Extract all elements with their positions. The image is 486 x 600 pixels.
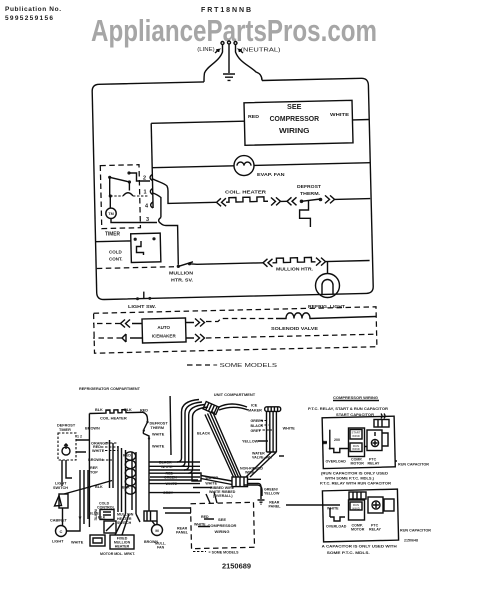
svg-text:BLK: BLK (122, 486, 130, 490)
svg-text:WHITE: WHITE (205, 482, 217, 486)
svg-text:WIRING: WIRING (279, 126, 310, 135)
svg-text:WHITE: WHITE (94, 509, 98, 521)
svg-text:BLK: BLK (98, 516, 106, 520)
svg-text:A CAPACITOR IS ONLY USED WITH: A CAPACITOR IS ONLY USED WITH (322, 545, 397, 549)
svg-text:RELAY: RELAY (369, 528, 381, 532)
svg-text:LIGHT: LIGHT (55, 482, 67, 486)
svg-text:BLACK: BLACK (197, 432, 211, 436)
svg-text:1: 1 (144, 190, 147, 196)
svg-text:UNIT COMPARTMENT: UNIT COMPARTMENT (214, 392, 256, 397)
svg-text:WHITE: WHITE (194, 523, 206, 527)
svg-text:YELLOW: YELLOW (264, 492, 280, 496)
svg-text:MOTOR MDL. MRKT.: MOTOR MDL. MRKT. (100, 552, 135, 556)
svg-text:RUN CAPACITOR: RUN CAPACITOR (400, 529, 431, 533)
svg-text:ICE: ICE (251, 404, 258, 408)
svg-text:HTR. SV.: HTR. SV. (171, 278, 193, 283)
svg-text:SOLENOID VALVE: SOLENOID VALVE (271, 326, 318, 331)
svg-text:EVAP. FAN: EVAP. FAN (257, 172, 285, 177)
svg-text:(RUN CAPACITOR IS ONLY USED: (RUN CAPACITOR IS ONLY USED (321, 472, 388, 476)
svg-text:PANEL: PANEL (176, 531, 189, 535)
svg-text:Publication No.: Publication No. (5, 6, 61, 13)
svg-text:COMPRESSOR: COMPRESSOR (270, 114, 320, 123)
svg-text:(NEUTRAL): (NEUTRAL) (241, 48, 281, 54)
svg-text:LIGHT SW.: LIGHT SW. (128, 304, 156, 309)
svg-text:SWITCH: SWITCH (117, 521, 132, 525)
svg-text:(LINE): (LINE) (197, 47, 214, 53)
svg-text:BLACK: BLACK (251, 424, 264, 428)
svg-text:WIRE: WIRE (245, 471, 255, 475)
svg-text:WHITE: WHITE (330, 112, 349, 117)
svg-text:COMPRESSOR WIRING: COMPRESSOR WIRING (333, 395, 378, 400)
svg-text:SEE: SEE (287, 102, 302, 111)
svg-text:YELLOW: YELLOW (242, 440, 259, 444)
svg-text:C: C (60, 529, 63, 534)
svg-text:MOTOR: MOTOR (351, 462, 365, 466)
svg-text:WHITE: WHITE (152, 445, 165, 449)
svg-text:MULLION HTR.: MULLION HTR. (276, 267, 313, 272)
svg-text:WIRING: WIRING (215, 529, 230, 534)
svg-text:DEFROST: DEFROST (297, 184, 321, 189)
svg-text:(OVERALL): (OVERALL) (213, 494, 233, 498)
svg-text:FAN: FAN (157, 546, 165, 550)
svg-text:CONT.: CONT. (109, 257, 123, 262)
svg-text:RELAY: RELAY (368, 462, 380, 466)
svg-text:OVERLOAD: OVERLOAD (326, 525, 347, 529)
svg-text:P.T.C. RELAY WITH RUN CAPACITO: P.T.C. RELAY WITH RUN CAPACITOR (320, 482, 391, 486)
svg-text:ICEMAKER: ICEMAKER (152, 334, 177, 339)
svg-text:2150648: 2150648 (404, 539, 418, 543)
svg-text:WIND: WIND (352, 434, 359, 438)
svg-text:DEFROST: DEFROST (57, 424, 76, 428)
svg-text:WITH SOME P.T.C. MDLS.): WITH SOME P.T.C. MDLS.) (325, 476, 375, 480)
svg-text:CABINET: CABINET (50, 519, 68, 523)
svg-text:SOME P.T.C. MDLS.: SOME P.T.C. MDLS. (327, 551, 370, 555)
svg-text:THERM.: THERM. (300, 191, 320, 196)
svg-text:WHITE: WHITE (166, 482, 178, 486)
svg-text:WHITE: WHITE (152, 433, 165, 437)
svg-text:RED: RED (140, 409, 148, 413)
svg-text:P.T.C. RELAY, START & RUN CAPA: P.T.C. RELAY, START & RUN CAPACITOR (308, 407, 388, 411)
svg-text:GREY: GREY (251, 429, 262, 433)
svg-text:TOP: TOP (90, 471, 98, 475)
svg-text:WHITE: WHITE (327, 507, 339, 511)
svg-text:= SOME MODELS: = SOME MODELS (213, 363, 277, 369)
svg-text:PANEL: PANEL (269, 505, 282, 509)
svg-text:REF.: REF. (90, 466, 98, 470)
svg-text:SEE: SEE (218, 517, 226, 522)
svg-text:1 2: 1 2 (77, 435, 82, 439)
svg-text:WIND: WIND (352, 447, 359, 451)
svg-text:COIL. HEATER: COIL. HEATER (225, 190, 267, 195)
svg-text:LIGHT: LIGHT (52, 540, 64, 544)
svg-text:WHITE: WHITE (161, 465, 173, 469)
svg-text:WHITE: WHITE (283, 426, 296, 430)
svg-text:WHITE: WHITE (71, 541, 84, 545)
svg-text:GREEN: GREEN (164, 476, 177, 480)
svg-text:VALVE--WH: VALVE--WH (252, 456, 272, 460)
svg-text:COLD: COLD (109, 250, 122, 255)
svg-text:COIL HEATER: COIL HEATER (100, 416, 127, 421)
svg-text:TIMER: TIMER (105, 232, 120, 238)
svg-text:HEATER: HEATER (115, 545, 130, 549)
svg-text:MAKER: MAKER (248, 409, 262, 413)
svg-text:BROWN: BROWN (88, 458, 103, 462)
svg-text:COMPRESSOR: COMPRESSOR (208, 523, 237, 528)
svg-text:TM: TM (108, 212, 113, 216)
svg-text:REFRIGERATOR COMPARTMENT: REFRIGERATOR COMPARTMENT (79, 386, 141, 391)
svg-text:TIMER: TIMER (59, 428, 71, 432)
svg-text:BLK: BLK (124, 408, 132, 412)
svg-text:GREEN: GREEN (251, 419, 264, 423)
svg-text:WHITE: WHITE (92, 449, 105, 453)
svg-text:OVERLOAD: OVERLOAD (326, 460, 347, 464)
svg-text:WIND: WIND (352, 507, 359, 511)
svg-text:AUTO: AUTO (157, 325, 170, 330)
svg-text:= SOME MODELS: = SOME MODELS (209, 550, 239, 555)
svg-text:BLK: BLK (95, 408, 103, 412)
svg-text:RUN CAPACITOR: RUN CAPACITOR (398, 463, 429, 467)
svg-text:MOTOR: MOTOR (351, 528, 365, 532)
svg-text:MULLION: MULLION (169, 271, 193, 276)
svg-text:RED: RED (201, 515, 209, 519)
svg-text:BROWN: BROWN (85, 427, 100, 431)
svg-text:THERM: THERM (151, 426, 165, 430)
svg-text:200: 200 (334, 438, 340, 442)
svg-text:2150689: 2150689 (222, 561, 251, 570)
svg-text:RED: RED (248, 114, 260, 119)
svg-text:5995259156: 5995259156 (5, 15, 53, 22)
svg-text:SWITCH: SWITCH (53, 486, 68, 490)
svg-text:BLK: BLK (95, 485, 103, 489)
svg-text:RED: RED (123, 454, 131, 458)
